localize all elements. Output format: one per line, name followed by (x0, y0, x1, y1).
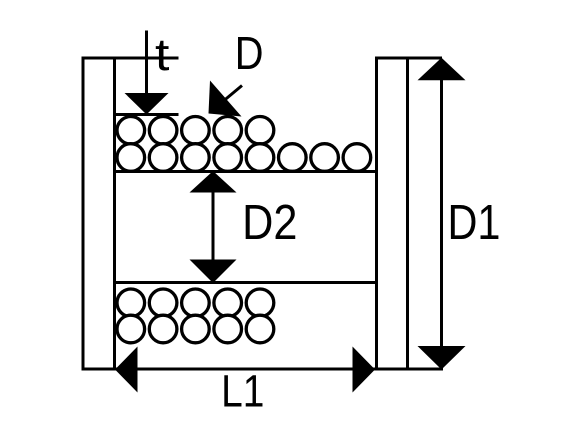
right flange inner edge (375, 57, 378, 370)
svg-text:D1: D1 (448, 195, 501, 250)
left flange outer edge (82, 57, 85, 371)
svg-text:L1: L1 (221, 366, 264, 416)
winding top reference line (113, 113, 179, 116)
right flange top edge / D1 top datum line (375, 57, 442, 60)
svg-text:D: D (235, 28, 264, 80)
dimension D1 bottom arrowhead (418, 346, 466, 370)
core bottom line (113, 281, 377, 284)
left flange inner edge (113, 57, 116, 370)
dimension D1 shaft (440, 78, 443, 348)
svg-text:D2: D2 (242, 194, 297, 249)
wire diameter D arrowhead (209, 81, 242, 117)
top winding upper row (5 wire turns) (117, 117, 274, 145)
top winding lower row (8 wire turns) (117, 144, 371, 172)
svg-text:t: t (155, 30, 170, 80)
left flange top edge / t datum line (82, 57, 179, 60)
bottom edge line / L1 datum (82, 368, 444, 371)
bottom winding lower row (5 wire turns) (117, 315, 274, 343)
dimension D1 top arrowhead (418, 58, 466, 81)
dimension D2 shaft (212, 190, 215, 262)
right flange outer edge (406, 57, 409, 370)
dimension L1 right arrowhead (353, 347, 376, 393)
dimension L1 left arrowhead (115, 347, 138, 393)
dimension D2 top arrowhead (190, 171, 237, 193)
wire diameter D leader line (224, 86, 242, 101)
core top line (113, 170, 377, 173)
dimension t arrowhead (125, 93, 169, 115)
dimension t leader line (145, 31, 148, 97)
dimension D2 bottom arrowhead (190, 260, 237, 284)
bottom winding upper row (5 wire turns) (117, 289, 274, 317)
